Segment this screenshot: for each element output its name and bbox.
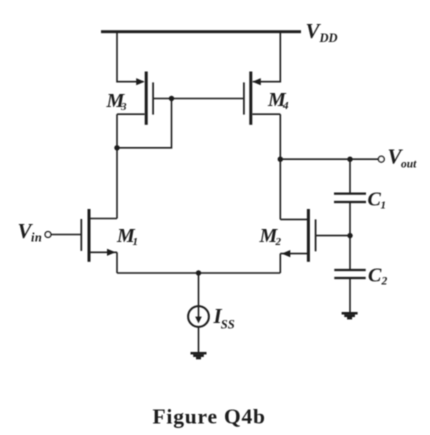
wire M2 drain to output node [279, 159, 281, 219]
node X junction C1-C2-M2 gate [347, 233, 352, 238]
wire M1 source down to tail [116, 252, 118, 273]
svg-text:C: C [368, 265, 382, 287]
wire M3 gate to M4 gate [154, 98, 243, 100]
svg-text:out: out [401, 158, 417, 170]
ground (below C2) [342, 313, 358, 318]
transistor M1 (NMOS) [81, 209, 117, 262]
label VDD [306, 19, 338, 45]
svg-text:SS: SS [221, 317, 235, 331]
wire M3 gate-drain feedback [117, 99, 172, 148]
capacitor C1 [334, 194, 366, 202]
transistor M2 (NMOS) [280, 209, 315, 262]
svg-text:Figure Q4b: Figure Q4b [153, 405, 266, 429]
svg-text:in: in [31, 231, 42, 245]
label M1 [116, 225, 138, 248]
wire node X to M2 gate [316, 235, 350, 237]
wire C1 to node X [349, 202, 351, 236]
node output left junction [278, 157, 283, 162]
transistor M3 (PMOS) [117, 72, 153, 125]
ground (below ISS) [191, 353, 207, 358]
wire output node to Vout terminal [280, 158, 378, 160]
wire Vin to M1 gate [51, 234, 81, 236]
label Vout [388, 145, 418, 171]
svg-text:4: 4 [282, 100, 289, 112]
svg-text:C: C [368, 189, 382, 211]
wire output node to C1 [349, 159, 351, 193]
wire M4 drain to output node [279, 114, 281, 159]
terminal Vout [378, 156, 384, 162]
wire tail [117, 272, 280, 274]
wire node X to C2 [349, 236, 351, 270]
node gate junction [169, 96, 174, 101]
wire M3 drain to M1 drain [116, 114, 118, 218]
terminal Vin [45, 232, 51, 238]
wire M2 source down to tail [279, 254, 281, 273]
node tail junction [196, 270, 201, 275]
wire tail to ISS [198, 273, 200, 306]
svg-text:3: 3 [120, 101, 127, 113]
label C2 [368, 265, 388, 288]
capacitor C2 [334, 270, 365, 278]
label M4 [267, 89, 289, 112]
label ISS [213, 304, 235, 331]
svg-text:2: 2 [381, 276, 388, 288]
wire C2 to ground [349, 278, 351, 313]
node M3 drain junction [114, 145, 119, 150]
power rail VDD [101, 30, 301, 33]
svg-text:2: 2 [275, 236, 282, 248]
wire VDD rail to M3 source [117, 32, 144, 82]
node output C1 junction [347, 157, 352, 162]
label M3 [106, 90, 128, 113]
label M2 [259, 225, 282, 248]
label C1 [368, 189, 387, 212]
svg-text:1: 1 [381, 199, 387, 211]
current source ISS [188, 306, 209, 327]
wire VDD rail to M4 source [253, 32, 280, 82]
svg-text:DD: DD [319, 31, 338, 45]
wire ISS to ground [198, 327, 200, 353]
transistor M4 (PMOS) [244, 72, 280, 125]
label Vin [18, 219, 43, 245]
svg-text:1: 1 [133, 236, 139, 248]
